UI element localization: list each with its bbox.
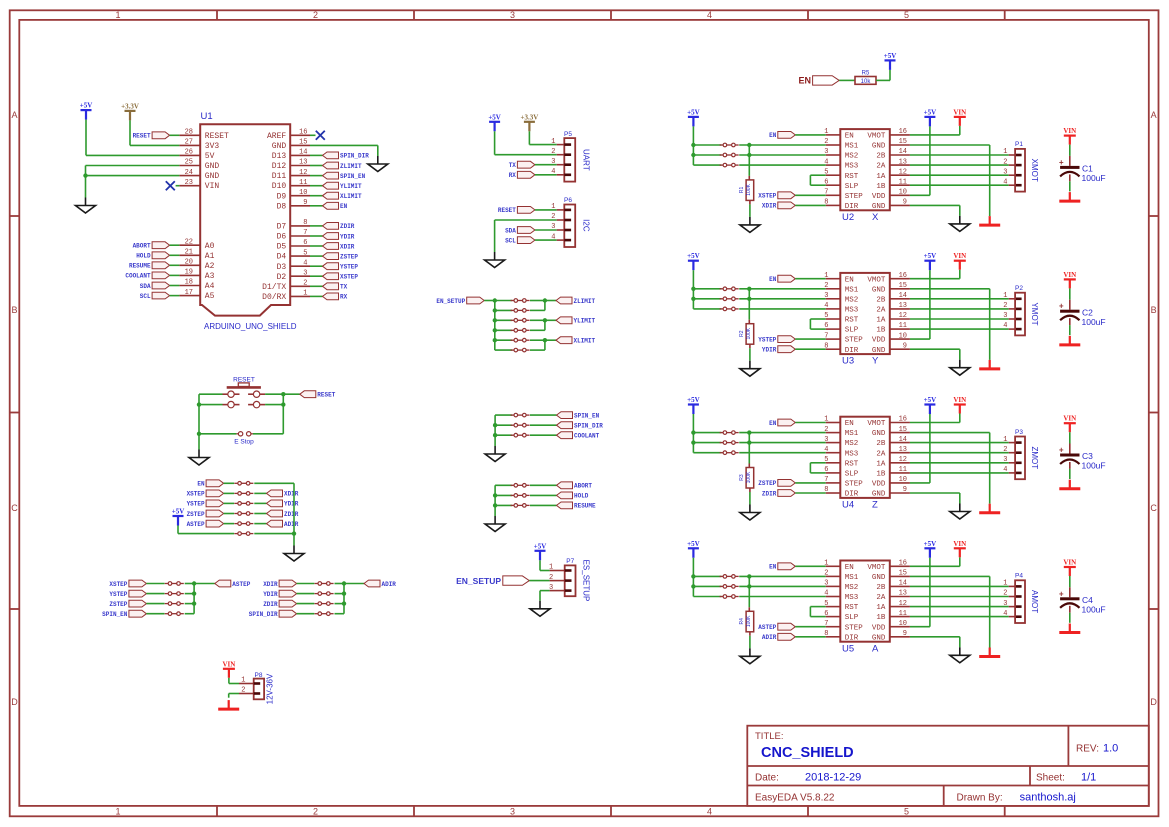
svg-text:+5V: +5V [172, 508, 185, 516]
svg-text:2: 2 [549, 574, 553, 582]
svg-text:1B: 1B [876, 471, 886, 479]
svg-text:XSTEP: XSTEP [109, 581, 127, 588]
svg-text:C: C [11, 503, 18, 513]
svg-text:15: 15 [899, 282, 907, 290]
svg-text:2018-12-29: 2018-12-29 [805, 772, 861, 784]
svg-text:ZMOT: ZMOT [1030, 446, 1039, 469]
svg-text:Z: Z [872, 500, 878, 511]
svg-text:YDIR: YDIR [284, 501, 299, 508]
svg-text:REV:: REV: [1076, 744, 1099, 755]
svg-text:P4: P4 [1015, 573, 1023, 580]
svg-text:6: 6 [824, 610, 828, 618]
svg-text:24: 24 [185, 169, 193, 177]
svg-text:RX: RX [509, 172, 517, 179]
svg-text:3: 3 [549, 584, 553, 592]
svg-text:P7: P7 [566, 558, 574, 565]
svg-text:1/1: 1/1 [1081, 772, 1096, 784]
svg-text:COOLANT: COOLANT [574, 433, 600, 440]
svg-text:GND: GND [272, 142, 287, 151]
svg-text:100K: 100K [746, 183, 752, 195]
svg-text:+3.3V: +3.3V [521, 113, 539, 121]
svg-text:12: 12 [899, 456, 907, 464]
svg-text:+5V: +5V [884, 52, 897, 60]
svg-text:ADIR: ADIR [762, 634, 777, 641]
svg-text:2: 2 [1003, 446, 1007, 454]
svg-text:D12: D12 [272, 162, 287, 171]
svg-text:COOLANT: COOLANT [125, 273, 151, 280]
svg-text:XMOT: XMOT [1030, 159, 1039, 182]
svg-text:12: 12 [899, 600, 907, 608]
svg-text:C: C [1150, 503, 1157, 513]
svg-text:3: 3 [551, 223, 555, 231]
svg-text:3: 3 [303, 269, 307, 277]
svg-text:100uF: 100uF [1082, 317, 1106, 327]
svg-text:4: 4 [551, 233, 555, 241]
svg-text:15: 15 [899, 426, 907, 434]
svg-text:YSTEP: YSTEP [758, 336, 776, 343]
svg-text:VIN: VIN [222, 660, 235, 668]
svg-text:RESET: RESET [205, 132, 229, 141]
svg-text:MS1: MS1 [845, 286, 859, 294]
svg-text:1: 1 [241, 677, 245, 685]
svg-text:3: 3 [824, 580, 828, 588]
svg-text:1: 1 [824, 416, 828, 424]
svg-text:12: 12 [899, 312, 907, 320]
svg-text:7: 7 [824, 189, 828, 197]
svg-text:SPIN_EN: SPIN_EN [340, 173, 366, 180]
svg-text:ZSTEP: ZSTEP [758, 480, 776, 487]
svg-text:14: 14 [299, 149, 307, 157]
svg-text:2A: 2A [876, 307, 886, 315]
svg-text:P5: P5 [564, 131, 572, 138]
svg-text:2A: 2A [876, 450, 886, 458]
svg-text:3: 3 [510, 806, 515, 816]
svg-text:ZDIR: ZDIR [340, 223, 355, 230]
svg-text:+5V: +5V [924, 252, 937, 260]
svg-text:EN: EN [798, 76, 811, 86]
svg-text:VDD: VDD [872, 481, 886, 489]
svg-text:R4: R4 [739, 618, 745, 625]
svg-text:3: 3 [1003, 168, 1007, 176]
svg-text:SDA: SDA [505, 227, 516, 234]
svg-text:1: 1 [551, 203, 555, 211]
svg-text:EN: EN [845, 564, 854, 572]
svg-text:12V-36V: 12V-36V [266, 673, 275, 704]
svg-text:GND: GND [872, 634, 886, 642]
svg-text:ZDIR: ZDIR [263, 601, 278, 608]
svg-text:Date:: Date: [755, 773, 779, 784]
svg-text:4: 4 [1003, 610, 1007, 618]
svg-text:ASTEP: ASTEP [232, 581, 250, 588]
svg-text:4: 4 [1003, 322, 1007, 330]
svg-text:D11: D11 [272, 172, 287, 181]
svg-text:YLIMIT: YLIMIT [340, 183, 362, 190]
svg-text:9: 9 [903, 199, 907, 207]
svg-text:P3: P3 [1015, 429, 1023, 436]
svg-text:ZLIMIT: ZLIMIT [340, 163, 362, 170]
svg-text:ZDIR: ZDIR [762, 490, 777, 497]
svg-text:23: 23 [185, 179, 193, 187]
svg-text:SLP: SLP [845, 471, 859, 479]
svg-text:17: 17 [185, 289, 193, 297]
svg-text:RESET: RESET [317, 392, 335, 399]
svg-text:P6: P6 [564, 197, 572, 204]
svg-text:GND: GND [872, 574, 886, 582]
svg-text:U1: U1 [201, 111, 213, 122]
svg-text:6: 6 [824, 178, 828, 186]
svg-text:D10: D10 [272, 182, 287, 191]
svg-text:GND: GND [872, 143, 886, 151]
svg-text:Drawn By:: Drawn By: [957, 793, 1003, 804]
svg-text:D0/RX: D0/RX [262, 293, 286, 302]
svg-text:11: 11 [899, 322, 907, 330]
svg-text:RESET: RESET [133, 133, 151, 140]
svg-text:B: B [1151, 305, 1157, 315]
svg-text:1A: 1A [876, 173, 886, 181]
svg-text:STEP: STEP [845, 193, 864, 201]
svg-text:ZSTEP: ZSTEP [109, 601, 127, 608]
svg-text:16: 16 [899, 128, 907, 136]
svg-text:A0: A0 [205, 242, 215, 251]
svg-text:YLIMIT: YLIMIT [574, 318, 596, 325]
svg-text:R3: R3 [739, 474, 745, 481]
svg-text:XDIR: XDIR [762, 203, 777, 210]
svg-text:4: 4 [1003, 466, 1007, 474]
svg-text:3: 3 [1003, 600, 1007, 608]
svg-text:P1: P1 [1015, 141, 1023, 148]
svg-text:25: 25 [185, 159, 193, 167]
svg-text:SPIN_DIR: SPIN_DIR [340, 153, 369, 160]
svg-text:15: 15 [899, 138, 907, 146]
svg-text:1: 1 [1003, 292, 1007, 300]
svg-text:10: 10 [899, 189, 907, 197]
svg-text:2: 2 [551, 213, 555, 221]
svg-text:RESET: RESET [498, 207, 516, 214]
svg-text:11: 11 [899, 610, 907, 618]
svg-text:Y: Y [872, 356, 879, 367]
svg-text:EN: EN [769, 420, 777, 427]
svg-text:4: 4 [303, 259, 307, 267]
svg-text:VIN: VIN [1063, 559, 1076, 567]
svg-text:XLIMIT: XLIMIT [340, 193, 362, 200]
svg-text:ASTEP: ASTEP [187, 521, 205, 528]
svg-text:MS2: MS2 [845, 440, 859, 448]
svg-text:22: 22 [185, 238, 193, 246]
svg-text:8: 8 [824, 199, 828, 207]
svg-text:2: 2 [241, 687, 245, 695]
svg-text:EN: EN [845, 133, 854, 141]
svg-text:ASTEP: ASTEP [758, 624, 776, 631]
svg-text:18: 18 [185, 279, 193, 287]
svg-text:4: 4 [824, 446, 828, 454]
svg-text:VDD: VDD [872, 193, 886, 201]
svg-text:+5V: +5V [924, 540, 937, 548]
svg-text:HOLD: HOLD [574, 493, 589, 500]
svg-text:10k: 10k [861, 79, 872, 85]
svg-text:13: 13 [299, 159, 307, 167]
svg-text:11: 11 [899, 178, 907, 186]
svg-text:5: 5 [824, 456, 828, 464]
svg-text:5: 5 [824, 312, 828, 320]
svg-text:7: 7 [824, 332, 828, 340]
svg-text:AREF: AREF [267, 132, 286, 141]
svg-text:ADIR: ADIR [284, 521, 299, 528]
svg-text:X: X [872, 212, 879, 223]
svg-text:4: 4 [824, 590, 828, 598]
svg-text:A: A [872, 643, 879, 654]
svg-text:ZSTEP: ZSTEP [340, 253, 358, 260]
svg-text:+5V: +5V [687, 252, 700, 260]
svg-text:+5V: +5V [80, 102, 93, 110]
svg-text:EN: EN [845, 276, 854, 284]
svg-text:7: 7 [824, 476, 828, 484]
svg-text:VMOT: VMOT [867, 133, 886, 141]
svg-text:MS2: MS2 [845, 153, 859, 161]
svg-text:13: 13 [899, 446, 907, 454]
svg-text:2: 2 [313, 10, 318, 20]
svg-text:1B: 1B [876, 327, 886, 335]
svg-text:U2: U2 [842, 212, 854, 223]
svg-text:13: 13 [899, 590, 907, 598]
svg-text:+5V: +5V [924, 108, 937, 116]
svg-text:EN: EN [340, 203, 348, 210]
svg-text:10: 10 [899, 620, 907, 628]
svg-text:MS3: MS3 [845, 594, 859, 602]
svg-text:1B: 1B [876, 183, 886, 191]
svg-text:VIN: VIN [205, 182, 220, 191]
svg-text:STEP: STEP [845, 624, 864, 632]
svg-text:6: 6 [303, 239, 307, 247]
svg-text:D7: D7 [277, 223, 287, 232]
svg-text:3: 3 [1003, 312, 1007, 320]
svg-text:2B: 2B [876, 296, 886, 304]
svg-text:TX: TX [340, 284, 348, 291]
svg-text:RST: RST [845, 173, 859, 181]
svg-text:4: 4 [551, 168, 555, 176]
svg-text:D6: D6 [277, 233, 287, 242]
svg-text:VIN: VIN [953, 396, 966, 404]
svg-text:R1: R1 [739, 186, 745, 193]
svg-text:VIN: VIN [953, 108, 966, 116]
svg-text:9: 9 [903, 486, 907, 494]
svg-text:XSTEP: XSTEP [758, 193, 776, 200]
svg-text:8: 8 [824, 342, 828, 350]
svg-text:4: 4 [707, 10, 712, 20]
svg-text:U3: U3 [842, 356, 854, 367]
svg-text:2A: 2A [876, 594, 886, 602]
svg-text:12: 12 [299, 169, 307, 177]
svg-text:1: 1 [824, 272, 828, 280]
svg-text:5V: 5V [205, 152, 215, 161]
svg-text:YMOT: YMOT [1030, 302, 1039, 325]
svg-text:+5V: +5V [924, 396, 937, 404]
svg-text:+5V: +5V [687, 108, 700, 116]
svg-text:26: 26 [185, 149, 193, 157]
svg-text:RESUME: RESUME [574, 503, 596, 510]
svg-text:ZDIR: ZDIR [284, 511, 299, 518]
svg-text:RESUME: RESUME [129, 263, 151, 270]
svg-text:U4: U4 [842, 500, 854, 511]
svg-text:+3.3V: +3.3V [121, 102, 139, 110]
svg-text:STEP: STEP [845, 481, 864, 489]
svg-text:10: 10 [899, 476, 907, 484]
svg-text:DIR: DIR [845, 347, 859, 355]
svg-text:1A: 1A [876, 604, 886, 612]
svg-text:DIR: DIR [845, 634, 859, 642]
svg-text:R5: R5 [862, 71, 870, 77]
svg-text:16: 16 [299, 129, 307, 137]
svg-text:GND: GND [205, 172, 220, 181]
svg-text:XSTEP: XSTEP [340, 274, 358, 281]
svg-text:ES_SETUP: ES_SETUP [582, 560, 591, 602]
svg-text:ARDUINO_UNO_SHIELD: ARDUINO_UNO_SHIELD [204, 322, 297, 331]
svg-text:YSTEP: YSTEP [340, 264, 358, 271]
svg-text:5: 5 [904, 806, 909, 816]
svg-text:A2: A2 [205, 262, 215, 271]
svg-text:100K: 100K [746, 327, 752, 339]
svg-text:SLP: SLP [845, 183, 859, 191]
svg-text:XLIMIT: XLIMIT [574, 338, 596, 345]
svg-text:1.0: 1.0 [1103, 743, 1118, 755]
svg-text:8: 8 [824, 630, 828, 638]
svg-text:D2: D2 [277, 273, 287, 282]
svg-text:2: 2 [313, 806, 318, 816]
svg-text:13: 13 [899, 302, 907, 310]
svg-text:MS2: MS2 [845, 296, 859, 304]
svg-text:C1: C1 [1082, 164, 1093, 174]
svg-text:E Stop: E Stop [234, 439, 254, 446]
svg-text:RST: RST [845, 604, 859, 612]
svg-text:1A: 1A [876, 317, 886, 325]
svg-text:7: 7 [303, 229, 307, 237]
svg-text:MS3: MS3 [845, 163, 859, 171]
svg-text:14: 14 [899, 436, 907, 444]
svg-text:XSTEP: XSTEP [187, 491, 205, 498]
svg-text:MS3: MS3 [845, 307, 859, 315]
svg-text:MS1: MS1 [845, 143, 859, 151]
svg-text:15: 15 [299, 139, 307, 147]
svg-text:15: 15 [899, 570, 907, 578]
svg-text:GND: GND [872, 203, 886, 211]
svg-text:12: 12 [899, 168, 907, 176]
svg-text:EN: EN [197, 481, 205, 488]
svg-text:D3: D3 [277, 263, 287, 272]
svg-text:2: 2 [303, 280, 307, 288]
svg-text:4: 4 [707, 806, 712, 816]
svg-text:SDA: SDA [140, 283, 151, 290]
svg-text:I2C: I2C [582, 219, 591, 232]
svg-text:14: 14 [899, 292, 907, 300]
svg-text:VDD: VDD [872, 337, 886, 345]
svg-text:YDIR: YDIR [263, 591, 278, 598]
svg-text:9: 9 [903, 630, 907, 638]
svg-text:5: 5 [303, 249, 307, 257]
svg-text:B: B [11, 305, 17, 315]
svg-text:1: 1 [1003, 580, 1007, 588]
svg-text:DIR: DIR [845, 491, 859, 499]
svg-text:6: 6 [824, 466, 828, 474]
svg-text:C2: C2 [1082, 307, 1093, 317]
svg-text:2: 2 [1003, 302, 1007, 310]
svg-text:A4: A4 [205, 282, 215, 291]
svg-text:+5V: +5V [534, 542, 547, 550]
svg-text:2B: 2B [876, 153, 886, 161]
svg-text:GND: GND [872, 430, 886, 438]
svg-text:1: 1 [1003, 148, 1007, 156]
svg-text:+5V: +5V [687, 396, 700, 404]
svg-text:VMOT: VMOT [867, 420, 886, 428]
svg-text:EN_SETUP: EN_SETUP [436, 298, 465, 305]
svg-text:1A: 1A [876, 460, 886, 468]
svg-text:4: 4 [1003, 178, 1007, 186]
svg-text:16: 16 [899, 416, 907, 424]
svg-text:XDIR: XDIR [284, 491, 299, 498]
svg-text:VDD: VDD [872, 624, 886, 632]
svg-text:16: 16 [899, 272, 907, 280]
svg-text:2A: 2A [876, 163, 886, 171]
svg-text:4: 4 [824, 158, 828, 166]
svg-text:5: 5 [904, 10, 909, 20]
svg-text:2: 2 [824, 282, 828, 290]
svg-text:RX: RX [340, 294, 348, 301]
svg-text:GND: GND [205, 162, 220, 171]
svg-text:VIN: VIN [1063, 271, 1076, 279]
svg-text:11: 11 [899, 466, 907, 474]
svg-text:GND: GND [872, 286, 886, 294]
svg-text:STEP: STEP [845, 337, 864, 345]
svg-text:EN: EN [769, 132, 777, 139]
svg-text:U5: U5 [842, 643, 854, 654]
svg-text:UART: UART [582, 149, 591, 171]
svg-text:+5V: +5V [488, 113, 501, 121]
svg-text:TITLE:: TITLE: [755, 731, 784, 742]
svg-text:VIN: VIN [1063, 127, 1076, 135]
svg-text:2: 2 [1003, 590, 1007, 598]
svg-text:MS2: MS2 [845, 584, 859, 592]
svg-text:100uF: 100uF [1082, 173, 1106, 183]
svg-text:D5: D5 [277, 243, 287, 252]
svg-text:ZSTEP: ZSTEP [187, 511, 205, 518]
svg-text:19: 19 [185, 269, 193, 277]
svg-text:C4: C4 [1082, 595, 1093, 605]
svg-text:SPIN_DIR: SPIN_DIR [574, 423, 603, 430]
svg-text:8: 8 [824, 486, 828, 494]
svg-text:1B: 1B [876, 614, 886, 622]
svg-text:1: 1 [824, 560, 828, 568]
svg-text:2B: 2B [876, 440, 886, 448]
svg-text:CNC_SHIELD: CNC_SHIELD [761, 745, 854, 761]
svg-text:santhosh.aj: santhosh.aj [1020, 792, 1076, 804]
svg-text:VIN: VIN [953, 252, 966, 260]
svg-text:A3: A3 [205, 272, 215, 281]
svg-text:MS1: MS1 [845, 574, 859, 582]
svg-text:SPIN_EN: SPIN_EN [574, 412, 600, 419]
svg-text:SLP: SLP [845, 614, 859, 622]
svg-text:VIN: VIN [953, 540, 966, 548]
svg-text:VMOT: VMOT [867, 564, 886, 572]
svg-text:MS1: MS1 [845, 430, 859, 438]
svg-text:10: 10 [299, 189, 307, 197]
svg-text:D4: D4 [277, 253, 287, 262]
svg-text:GND: GND [872, 491, 886, 499]
svg-text:21: 21 [185, 249, 193, 257]
svg-text:XDIR: XDIR [340, 243, 355, 250]
svg-text:3: 3 [551, 158, 555, 166]
svg-text:3: 3 [824, 436, 828, 444]
svg-text:ABORT: ABORT [133, 243, 151, 250]
svg-text:VIN: VIN [1063, 415, 1076, 423]
svg-text:8: 8 [303, 219, 307, 227]
